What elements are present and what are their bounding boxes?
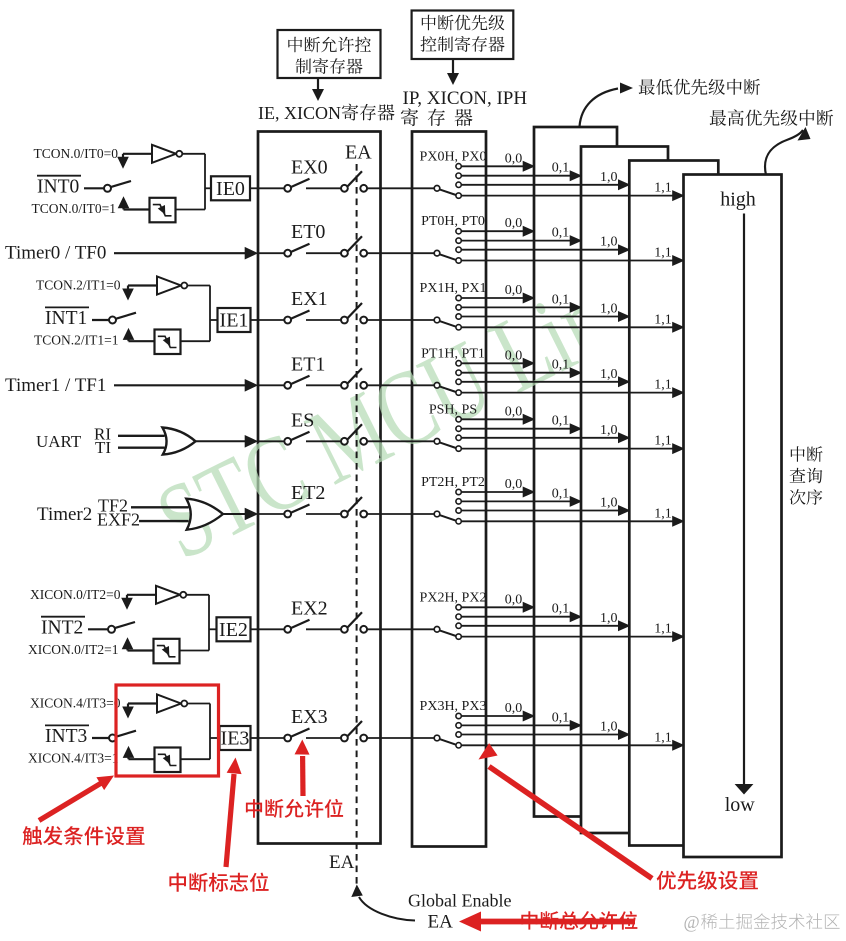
selector contact and wire PT0H, PT0 -> level 0,0 [456, 229, 461, 234]
wire RI to OR gate [118, 435, 165, 437]
wire input to switch [92, 737, 110, 739]
svg-text:0,1: 0,1 [552, 486, 570, 501]
upper throw contact (level trigger) with down arrow [127, 704, 129, 708]
wire EA switch to priority selector row ES [367, 440, 434, 442]
svg-text:Timer1 / TF1: Timer1 / TF1 [5, 375, 106, 396]
svg-text:PSH, PS: PSH, PS [429, 402, 477, 417]
wire to edge detector [124, 208, 151, 210]
wire EA switch to priority selector row EX3 [367, 737, 434, 739]
svg-text:0,0: 0,0 [505, 592, 523, 607]
red label: interrupt flag bit, with arrow to IE3 [169, 873, 268, 892]
lower throw contact (edge trigger) with up arrow [123, 328, 135, 340]
priority level box 0,1 [581, 147, 668, 834]
interrupt flag box IE1 [210, 319, 218, 321]
priority level box 1,0 [629, 161, 718, 846]
wire IE0 to IE register box [250, 187, 259, 189]
red label: trigger condition setting, with arrow to red box [23, 826, 145, 845]
selector contact and wire PT1H, PT1 -> level 0,1 [456, 370, 461, 375]
svg-text:0,1: 0,1 [552, 710, 570, 725]
selector contact and wire PX1H, PX1 -> level 1,1 [456, 325, 461, 330]
EA series switch row ES [341, 438, 348, 445]
EA series switch row EX1 [341, 317, 348, 324]
svg-text:low: low [725, 794, 756, 816]
wire to inverter [123, 153, 152, 155]
svg-text:IP, XICON, IPH: IP, XICON, IPH [403, 88, 528, 109]
svg-text:TCON.0/IT0=1: TCON.0/IT0=1 [32, 201, 116, 216]
junction wire to flag box [204, 154, 206, 210]
svg-text:IE2: IE2 [219, 619, 248, 641]
wire edge detector output [176, 209, 206, 211]
svg-text:0,0: 0,0 [505, 701, 523, 716]
selector contact and wire PT2H, PT2 -> level 1,1 [456, 519, 461, 524]
level/edge select switch for INT0 [104, 185, 111, 192]
svg-text:1,1: 1,1 [654, 246, 672, 261]
level/edge select switch for INT2 [108, 626, 115, 633]
selector contact and wire PX1H, PX1 -> level 0,0 [456, 295, 461, 300]
selector contact and wire PT1H, PT1 -> level 1,1 [456, 390, 461, 395]
wire ET1 to EA switch [306, 384, 341, 386]
svg-text:1,1: 1,1 [654, 312, 672, 327]
dashed EA control line [356, 164, 358, 884]
svg-text:INT2: INT2 [41, 617, 83, 638]
svg-text:IE0: IE0 [216, 178, 245, 200]
svg-text:1,0: 1,0 [600, 423, 618, 438]
falling-edge detector box of INT3 path [155, 748, 181, 773]
svg-text:1,1: 1,1 [654, 622, 672, 637]
svg-text:XICON.4/IT3=1: XICON.4/IT3=1 [28, 751, 118, 766]
arrow from enable-register label box [317, 79, 319, 92]
selector contact and wire PT0H, PT0 -> level 1,1 [456, 258, 461, 263]
wire IE2 to IE register box [251, 628, 259, 630]
svg-text:EA: EA [345, 142, 372, 164]
svg-text:INT1: INT1 [45, 308, 87, 329]
OR gate U-uart [162, 428, 195, 455]
junction wire to flag box [209, 286, 211, 342]
interrupt flag box IE2 [209, 628, 217, 630]
selector contact and wire PX1H, PX1 -> level 0,1 [456, 305, 461, 310]
svg-text:XICON.4/IT3=0: XICON.4/IT3=0 [30, 696, 121, 711]
svg-text:0,1: 0,1 [552, 292, 570, 307]
lower throw contact (edge trigger) with up arrow [122, 637, 134, 649]
inverter (NOT gate) of INT3 path [157, 695, 181, 713]
OR gate U-timer2 [186, 499, 223, 530]
wire OR output to IE box with arrowhead [223, 513, 246, 515]
svg-text:PX0H, PX0: PX0H, PX0 [420, 149, 487, 164]
wire edge detector output [181, 340, 211, 342]
svg-text:0,0: 0,0 [505, 404, 523, 419]
svg-text:EX0: EX0 [291, 156, 328, 178]
selector contact and wire PSH, PS -> level 0,0 [456, 417, 461, 422]
svg-text:XICON.0/IT2=0: XICON.0/IT2=0 [30, 587, 121, 602]
svg-text:ES: ES [291, 409, 314, 431]
svg-text:PX1H, PX1: PX1H, PX1 [420, 281, 487, 296]
svg-text:PT1H, PT1: PT1H, PT1 [421, 346, 485, 361]
svg-text:INT0: INT0 [37, 176, 79, 197]
svg-text:EX2: EX2 [291, 597, 328, 619]
selector contact and wire PT2H, PT2 -> level 1,0 [456, 508, 461, 513]
falling-edge detector box of INT2 path [154, 639, 180, 664]
wire EA switch to priority selector row ET1 [367, 384, 434, 386]
selector contact and wire PX2H, PX2 -> level 1,0 [456, 623, 461, 628]
selector contact and wire PT0H, PT0 -> level 1,0 [456, 247, 461, 252]
svg-text:PT2H, PT2: PT2H, PT2 [421, 475, 485, 490]
selector contact and wire PT0H, PT0 -> level 0,1 [456, 238, 461, 243]
svg-text:1,1: 1,1 [654, 434, 672, 449]
svg-text:Timer0 / TF0: Timer0 / TF0 [5, 243, 106, 264]
svg-text:0,1: 0,1 [552, 358, 570, 373]
svg-text:PT0H, PT0: PT0H, PT0 [421, 214, 485, 229]
svg-text:IE, XICON: IE, XICON [258, 103, 341, 123]
svg-text:0,0: 0,0 [505, 151, 523, 166]
inverter (NOT gate) of INT0 path [152, 145, 176, 163]
curved arrow from EA text to dashed EA line [359, 897, 415, 921]
svg-text:ET1: ET1 [291, 353, 325, 375]
svg-text:1,0: 1,0 [600, 170, 618, 185]
inverter (NOT gate) of INT2 path [156, 586, 180, 604]
wire EXF2 to OR gate [139, 520, 189, 522]
EA series switch row ET0 [341, 250, 348, 257]
label box: interrupt enable control register [278, 30, 381, 78]
svg-text:1,0: 1,0 [600, 235, 618, 250]
wire to edge detector [129, 340, 156, 342]
wire input to switch [92, 319, 110, 321]
EA series switch row ET1 [341, 382, 348, 389]
falling-edge detector box of INT0 path [150, 198, 176, 223]
svg-text:1,0: 1,0 [600, 720, 618, 735]
EA series switch row EX0 [341, 185, 348, 192]
svg-text:0,0: 0,0 [505, 477, 523, 492]
svg-text:TCON.2/IT1=1: TCON.2/IT1=1 [34, 333, 118, 348]
wire EA switch to priority selector row EX2 [367, 628, 434, 630]
wire IE1 to IE register box [251, 319, 259, 321]
lower throw contact (edge trigger) with up arrow [123, 746, 135, 758]
label lowest priority interrupt with curved arrow [639, 79, 760, 95]
svg-text:EA: EA [329, 852, 355, 873]
svg-text:PX3H, PX3: PX3H, PX3 [420, 699, 487, 714]
wire to edge detector [128, 649, 155, 651]
wire edge detector output [180, 650, 210, 652]
red highlight box around INT3 trigger circuit [116, 685, 219, 776]
svg-text:0,1: 0,1 [552, 602, 570, 617]
EA series switch row ET2 [341, 511, 348, 518]
wire inverter output [182, 153, 205, 155]
svg-text:1,0: 1,0 [600, 367, 618, 382]
svg-text:EX1: EX1 [291, 288, 328, 310]
inverter (NOT gate) of INT1 path [157, 277, 181, 295]
svg-text:0,1: 0,1 [552, 414, 570, 429]
junction wire to flag box [209, 704, 211, 760]
wire EX2 to EA switch [306, 628, 341, 630]
svg-text:1,0: 1,0 [600, 302, 618, 317]
svg-text:1,1: 1,1 [654, 181, 672, 196]
svg-text:0,0: 0,0 [505, 216, 523, 231]
interrupt flag box IE3 [210, 737, 220, 739]
wire EA switch to priority selector row EX0 [367, 187, 434, 189]
selector contact and wire PX0H, PX0 -> level 0,0 [456, 164, 461, 169]
wire EX1 to EA switch [306, 319, 341, 321]
svg-text:UART: UART [36, 432, 82, 451]
svg-text:0,0: 0,0 [505, 348, 523, 363]
svg-text:0,0: 0,0 [505, 283, 523, 298]
svg-text:IE3: IE3 [221, 728, 250, 750]
register box IE/XICON (enable switches) [258, 132, 381, 844]
upper throw contact (level trigger) with down arrow [126, 595, 128, 599]
wire inverter output [186, 594, 209, 596]
svg-text:1,0: 1,0 [600, 496, 618, 511]
red label: priority setting, with long arrow to IP box [657, 871, 758, 890]
svg-text:1,0: 1,0 [600, 611, 618, 626]
selector contact and wire PT1H, PT1 -> level 1,0 [456, 379, 461, 384]
wire ET2 to EA switch [306, 513, 341, 515]
polling order arrow high to low [743, 214, 745, 786]
svg-text:0,1: 0,1 [552, 226, 570, 241]
upper throw contact (level trigger) with down arrow [127, 286, 129, 290]
level/edge select switch for INT3 [109, 735, 116, 742]
priority level box 1,1 high/low polling order [684, 175, 782, 858]
svg-text:Global Enable: Global Enable [408, 891, 511, 911]
wire TI to OR gate [118, 447, 165, 449]
wire to edge detector [129, 758, 156, 760]
wire inverter output [187, 703, 210, 705]
red label: global interrupt enable bit, with arrow to EA [521, 911, 637, 930]
wire EA switch to priority selector row ET2 [367, 513, 434, 515]
arrow from priority-register label box [452, 60, 454, 76]
svg-text:high: high [720, 189, 756, 211]
interrupt flag box IE0 [205, 187, 211, 189]
wire EX0 to EA switch [306, 187, 341, 189]
wire to inverter [127, 594, 156, 596]
svg-text:TCON.2/IT1=0: TCON.2/IT1=0 [36, 278, 121, 293]
selector contact and wire PX1H, PX1 -> level 1,0 [456, 314, 461, 319]
wire edge detector output [181, 758, 211, 760]
label interrupt polling order (vertical) [791, 446, 823, 462]
label box: interrupt priority control register [412, 11, 514, 60]
selector contact and wire PX2H, PX2 -> level 0,0 [456, 605, 461, 610]
svg-text:TI: TI [95, 438, 111, 457]
wire timer flag to IE box with arrowhead [114, 384, 246, 386]
selector contact and wire PX2H, PX2 -> level 0,1 [456, 614, 461, 619]
svg-text:TCON.0/IT0=0: TCON.0/IT0=0 [34, 146, 119, 161]
red label: interrupt enable bit, with arrow to EX3 switch [246, 799, 343, 818]
svg-text:XICON.0/IT2=1: XICON.0/IT2=1 [28, 642, 118, 657]
svg-text:Timer2: Timer2 [37, 504, 92, 525]
selector contact and wire PX3H, PX3 -> level 1,0 [456, 732, 461, 737]
svg-text:0,1: 0,1 [552, 161, 570, 176]
wire OR output to IE box with arrowhead [196, 440, 247, 442]
selector contact and wire PSH, PS -> level 1,0 [456, 435, 461, 440]
svg-text:EXF2: EXF2 [97, 510, 140, 530]
upper throw contact (level trigger) with down arrow [122, 154, 124, 158]
selector contact and wire PX3H, PX3 -> level 0,1 [456, 723, 461, 728]
wire timer flag to IE box with arrowhead [114, 252, 246, 254]
label highest priority interrupt with curved arrow [710, 109, 834, 126]
svg-text:INT3: INT3 [45, 726, 87, 747]
svg-text:IE1: IE1 [220, 310, 249, 332]
selector contact and wire PT2H, PT2 -> level 0,1 [456, 499, 461, 504]
lower throw contact (edge trigger) with up arrow [118, 196, 130, 208]
selector contact and wire PX2H, PX2 -> level 1,1 [456, 634, 461, 639]
svg-text:PX2H, PX2: PX2H, PX2 [420, 590, 487, 605]
wire EX3 to EA switch [306, 737, 341, 739]
wire EA switch to priority selector row EX1 [367, 319, 434, 321]
selector contact and wire PT1H, PT1 -> level 0,0 [456, 361, 461, 366]
junction wire to flag box [208, 595, 210, 651]
wire to inverter [128, 702, 157, 704]
register box IP/XICON/IPH (priority selectors) [412, 132, 486, 847]
selector contact and wire PX3H, PX3 -> level 0,0 [456, 713, 461, 718]
wire to inverter [128, 284, 157, 286]
svg-text:@: @ [684, 912, 700, 932]
wire EA switch to priority selector row ET0 [367, 252, 434, 254]
wire input to switch [84, 187, 105, 189]
selector contact and wire PX0H, PX0 -> level 1,0 [456, 182, 461, 187]
svg-text:EX3: EX3 [291, 706, 328, 728]
wire ET0 to EA switch [306, 252, 341, 254]
wire inverter output [187, 285, 210, 287]
selector contact and wire PX0H, PX0 -> level 1,1 [456, 193, 461, 198]
selector contact and wire PX0H, PX0 -> level 0,1 [456, 173, 461, 178]
wire TF2 to OR gate [131, 506, 189, 508]
svg-text:1,1: 1,1 [654, 378, 672, 393]
selector contact and wire PX3H, PX3 -> level 1,1 [456, 743, 461, 748]
svg-text:EA: EA [428, 912, 454, 933]
svg-text:ET0: ET0 [291, 221, 325, 243]
svg-text:1,1: 1,1 [654, 730, 672, 745]
priority level box 0,0 [534, 127, 617, 817]
selector contact and wire PT2H, PT2 -> level 0,0 [456, 489, 461, 494]
level/edge select switch for INT1 [109, 317, 116, 324]
wire input to switch [88, 628, 109, 630]
selector contact and wire PSH, PS -> level 1,1 [456, 446, 461, 451]
wire ES to EA switch [306, 440, 341, 442]
wire IE3 to IE register box [251, 737, 259, 739]
EA series switch row EX3 [341, 735, 348, 742]
svg-text:1,1: 1,1 [654, 506, 672, 521]
falling-edge detector box of INT1 path [155, 330, 181, 355]
svg-text:ET2: ET2 [291, 482, 325, 504]
selector contact and wire PSH, PS -> level 0,1 [456, 426, 461, 431]
EA series switch row EX2 [341, 626, 348, 633]
